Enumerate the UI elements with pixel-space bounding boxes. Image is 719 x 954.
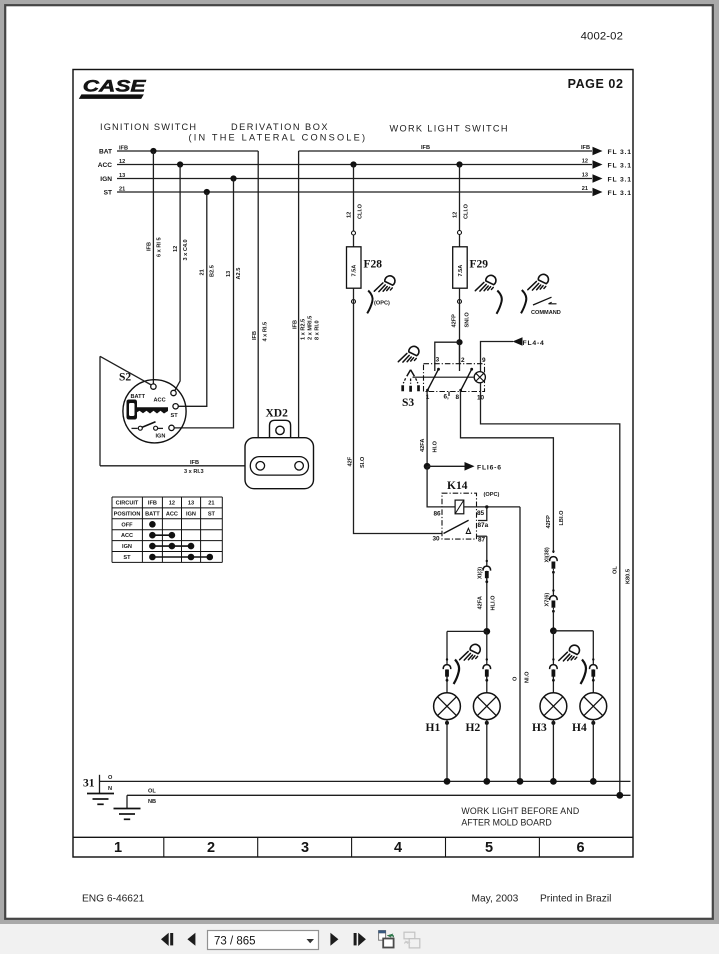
ground symbol 1 [87, 794, 114, 805]
wire BAT drop to XD2 pin1 [257, 151, 259, 462]
terminal dot below H2 [485, 721, 489, 725]
wire H2 drop [486, 631, 488, 692]
connector XD2 body [245, 438, 314, 489]
toolbar previous-page button [187, 933, 195, 946]
wire H4 to ground bus [592, 720, 594, 782]
wire BAT riser from XD2 pin2 [298, 151, 300, 462]
pin BATT of S2 [151, 384, 156, 389]
S3 contact 2 [461, 369, 473, 391]
junction H3 ground [550, 778, 557, 785]
node ACC bus (12) [117, 164, 592, 166]
pin 6 tick [448, 392, 450, 397]
XD2 pin 2 [295, 462, 304, 471]
arrow to FL 3.1 from ACC [593, 160, 603, 169]
ground bus OL/NB [127, 794, 631, 796]
terminal circle below F28 [352, 300, 356, 304]
terminal circle above F28 [352, 231, 356, 235]
work light icon near S3 [398, 346, 419, 362]
toolbar first-page button [161, 933, 173, 946]
wire ACC to F28 [353, 165, 355, 247]
junction above S3 pin 2 [456, 339, 462, 345]
wire between connectors [552, 572, 554, 595]
connector XD2 mounting tab [270, 420, 291, 437]
zone numbers [114, 840, 585, 856]
junction ST to S2 [204, 189, 210, 195]
junction FL16-6 [424, 463, 431, 470]
wire ACC drop to S2 ACC [175, 165, 181, 392]
pin ACC of S2 [171, 390, 176, 395]
brace arc near F29 [497, 291, 502, 314]
fuse F29 [453, 247, 468, 288]
work light icon between H3 H4 [559, 645, 580, 661]
arrow FL16-6 [465, 462, 475, 471]
previous-view icon green arrow [387, 934, 394, 938]
wire S3 lamp to pin 10 [480, 383, 482, 392]
junction ACC to S2 [177, 161, 183, 167]
junction H1 ground [444, 778, 451, 785]
wire S2 BATT diagonal to left loop [100, 356, 151, 385]
wire X7(6) to junction [552, 611, 554, 631]
contact triangle [466, 528, 470, 533]
K14 coil right stub to 85 [464, 506, 520, 508]
wire H3 drop [552, 631, 554, 693]
wire H4 drop [592, 631, 594, 693]
connector XI(38) [550, 550, 558, 573]
S3 actuator line [413, 376, 474, 378]
wire pin1 junction down to K14 pin 86 [427, 466, 455, 507]
wire F28 to relay pin 30 [354, 288, 442, 533]
wire K14 85 to ground riser [519, 507, 521, 782]
wire S3 pin8 to lamp group 2 [461, 392, 554, 554]
wire junction to S3 pin 3 [435, 342, 460, 371]
wire ACC to F29 [459, 165, 461, 247]
connector X7(6) [550, 589, 558, 612]
arrow to FL 3.1 from IGN [593, 174, 603, 183]
node BAT bus (IFB) right segment [299, 150, 592, 152]
toolbar strip [0, 924, 719, 954]
previous-view icon blue titlebar [378, 930, 385, 933]
wire H2 to ground bus [486, 720, 488, 782]
wire H1 drop [446, 631, 448, 692]
wire ST drop to S2 ST [178, 192, 206, 406]
work light icon between H1 H2 [460, 644, 481, 660]
COMMAND arrow [549, 302, 557, 304]
wire to FL16-6 arrow [427, 465, 465, 467]
lamp H2 [473, 693, 500, 720]
lamp H3 [540, 693, 567, 720]
table header CIRCUIT row [116, 501, 215, 507]
S3 internal lamp [474, 372, 485, 383]
terminal dot below H3 [551, 721, 555, 725]
brace arc near H1 [454, 660, 460, 685]
work light icon near F29 [475, 275, 496, 291]
S2 truth table [112, 497, 222, 562]
arrow to FL 3.1 from ST [593, 188, 603, 197]
CASE logo [79, 77, 146, 99]
toolbar next-page button [330, 933, 338, 946]
XD2 inner slot [250, 457, 308, 476]
hole in XD2 tab [276, 426, 284, 434]
toolbar last-page button [354, 933, 366, 946]
junction H4 ground [590, 778, 597, 785]
wire FL4-4 to S3 pin 9 [481, 342, 514, 372]
junction IGN to S2 [230, 175, 236, 181]
wire IFB 3 x RI.3 to XD2 pin1 [100, 465, 256, 467]
brace arc near F28 [367, 291, 372, 314]
wire H3 to ground bus [552, 720, 554, 782]
pin ST of S2 [173, 404, 178, 409]
K14 contact arm from 30 [444, 520, 469, 533]
key symbol [127, 400, 169, 420]
junction relay ground [517, 778, 524, 785]
ground bus O/N [100, 780, 631, 782]
wire F29 down to S3 junction [459, 288, 461, 364]
wire left loop down [99, 356, 101, 466]
ignition switch S2 body [123, 380, 186, 443]
connector on H3 drop [550, 658, 558, 681]
drawing frame border [73, 70, 633, 858]
toolbar page number box [208, 931, 319, 950]
XD2 pin 1 [256, 462, 265, 471]
connector on H4 drop [590, 658, 598, 681]
zone number band [73, 836, 633, 838]
connector XI(3) [483, 560, 491, 583]
arrow from FL4-4 [513, 337, 523, 346]
wire 87a up to 85 net [478, 507, 487, 521]
wire S3 pin1 down [426, 392, 428, 467]
wire S3 pin10 to ground riser [481, 392, 620, 796]
relay K14 box [442, 493, 477, 539]
S3 lever symbol [403, 370, 419, 392]
work light icon near F28 [374, 276, 395, 292]
COMMAND lever [533, 297, 552, 305]
junction 87a to 85 wire [485, 505, 488, 508]
switch S3 box [424, 364, 485, 392]
wire split to H4 [553, 630, 593, 632]
junction BAT to S2 [150, 148, 156, 154]
junction lamp feed H1/H2 [483, 628, 490, 635]
work light icon near COMMAND [528, 274, 549, 290]
junction ACC to F28 [350, 161, 356, 167]
terminal dot below H4 [591, 721, 595, 725]
terminal dot below H1 [445, 721, 449, 725]
arrow to FL 3.1 from BAT [593, 147, 603, 156]
node BAT bus (IFB) left segment [117, 150, 258, 152]
ground lead 2 [126, 795, 128, 808]
junction OL riser ground [616, 792, 623, 799]
brace arc near H4 [581, 660, 587, 685]
pin IGN of S2 [169, 425, 174, 430]
next-view icon (disabled) [404, 932, 420, 948]
ground symbol 2 [114, 809, 141, 820]
connector on H1 drop [443, 658, 451, 681]
connector on H2 drop [483, 658, 491, 681]
dropdown caret [307, 939, 315, 943]
wire to S3 pin 2 (from junction) [459, 342, 461, 371]
wire IGN drop to S2 IGN [175, 179, 234, 428]
terminal circle below F29 [458, 300, 462, 304]
contact symbol inside S2 [132, 422, 164, 430]
wire K14 87 down to lamps 1-2 [486, 536, 488, 631]
node IGN bus (13) [117, 178, 592, 180]
lamp H4 [580, 693, 607, 720]
table header POSITION row [114, 511, 216, 517]
wire H1 to ground bus [446, 720, 448, 782]
ground lead 1 [99, 775, 101, 794]
junction lamp feed H3/H4 [550, 627, 557, 634]
fuse F28 [347, 247, 362, 288]
K14 coil [455, 500, 464, 514]
wire split to H1 [447, 630, 487, 632]
previous-view icon [378, 930, 394, 947]
lamp H1 [434, 693, 461, 720]
terminal circle above F29 [458, 231, 462, 235]
node ST bus (21) [117, 191, 592, 193]
junction ACC to F29 [456, 161, 462, 167]
pin 87 tick [477, 535, 487, 537]
wire BAT drop to S2 BATT [152, 151, 154, 384]
brace arc near COMMAND [521, 290, 526, 313]
junction H2 ground [483, 778, 490, 785]
S3 contact 1 [427, 369, 439, 391]
